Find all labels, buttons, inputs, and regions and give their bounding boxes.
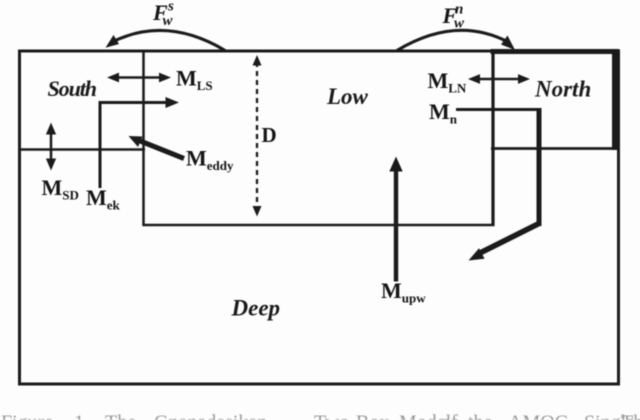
arrow D depth dashed double-headed	[253, 55, 262, 217]
svg-text:of: of	[441, 412, 458, 420]
arrow M_SD double-headed	[46, 123, 56, 171]
caption Figure 1 (clipped at bottom)	[1, 412, 640, 420]
label Fws	[152, 0, 174, 29]
svg-text:The: The	[105, 412, 136, 420]
arrow Fws arc	[106, 30, 226, 50]
wire M_n horizontal	[456, 108, 541, 111]
North box bottom edge	[491, 147, 619, 150]
arrow M_LS double-headed	[107, 73, 171, 83]
svg-text:Low: Low	[326, 84, 369, 109]
label Fwn	[442, 2, 466, 32]
wire South bottom line	[18, 148, 145, 151]
North box thick top edge	[491, 49, 620, 54]
svg-text:w: w	[454, 16, 465, 32]
wire South/Low divider	[142, 50, 145, 226]
svg-text:Deep: Deep	[231, 296, 281, 321]
North box thick right edge	[612, 49, 618, 150]
svg-text:D: D	[262, 123, 277, 147]
arrow Fwn arc	[397, 30, 515, 50]
svg-text:1.: 1.	[74, 412, 89, 420]
arrow M_upw upwelling	[389, 157, 402, 282]
svg-text:South: South	[48, 76, 98, 101]
svg-text:Two-Box: Two-Box	[314, 412, 389, 420]
outer box (Deep boundary)	[20, 51, 619, 384]
svg-text:AMOC.: AMOC.	[508, 412, 573, 420]
wire M_n vertical	[537, 108, 542, 226]
svg-text:Figure: Figure	[1, 412, 53, 420]
svg-text:w: w	[163, 13, 174, 29]
svg-text:the: the	[468, 412, 493, 420]
svg-text:North: North	[534, 77, 591, 102]
arrow M_n diagonal into Deep	[469, 223, 541, 261]
svg-text:The: The	[621, 412, 640, 420]
wire Low bottom line	[143, 224, 495, 227]
arrow M_eddy	[129, 136, 185, 159]
arrow M_ek (Ekman)	[100, 97, 179, 188]
wire Low/North divider	[491, 50, 494, 226]
arrow M_LN double-headed	[468, 74, 530, 84]
svg-text:Gnanadesikan: Gnanadesikan	[154, 412, 267, 420]
